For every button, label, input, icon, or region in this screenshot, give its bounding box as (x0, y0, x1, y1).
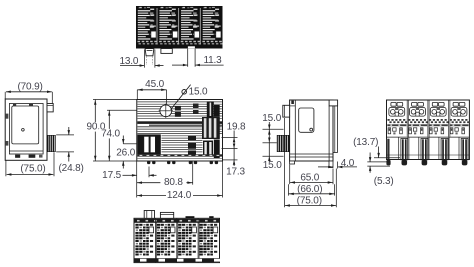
dimension 19.8 17.3 line and arrows (233, 131, 236, 167)
front view bottom feet (147, 161, 218, 164)
left view top right tab (47, 104, 53, 112)
bottom view tab center (160, 212, 173, 218)
front view louvers lower (162, 136, 203, 152)
svg-text:80.8: 80.8 (164, 177, 183, 188)
bottom view dark mark 1 (186, 216, 195, 218)
dimension 19.8 extension lines (222, 137, 238, 160)
dimension 90.0 extension lines (93, 100, 137, 162)
dimension 26.0 extension line (123, 143, 137, 145)
rear view left half plunger (386, 139, 390, 166)
bottom view dark mark 2 (209, 216, 213, 218)
dimension 15.0 lines and arrows (268, 122, 271, 162)
front view right connector bars (202, 101, 220, 158)
svg-text:4.0: 4.0 (341, 158, 355, 169)
dimension 13.0 line and arrows (120, 64, 164, 67)
dimension (70.9) extension lines (5, 92, 52, 104)
front view mid dark details (175, 104, 199, 157)
svg-text:(66.0): (66.0) (297, 184, 322, 195)
side view top left tick (291, 101, 294, 104)
svg-text:(75.0): (75.0) (297, 196, 322, 207)
dimension 17.5 extension lines (137, 161, 149, 198)
front view left terminal block (137, 134, 161, 154)
dimension (5.3) lines and arrows (367, 153, 390, 173)
dimension 13.0 extension lines (144, 50, 155, 68)
label 90.0 (84, 122, 108, 132)
rear view module 4 (449, 100, 470, 160)
front view louvers upper (137, 102, 222, 118)
svg-text:11.3: 11.3 (203, 55, 222, 66)
bottom view body (134, 218, 220, 262)
left view small circle (22, 129, 25, 132)
bottom view module 4 (198, 218, 218, 262)
side view bottom feet (290, 161, 333, 168)
left view left edge detail (5, 114, 8, 146)
dimension 17.5 line and arrows (123, 174, 157, 177)
bottom view module 3 (177, 218, 197, 262)
rear view plungers (399, 137, 470, 165)
svg-text:65.0: 65.0 (300, 173, 319, 184)
dimension (24.8) extension lines (56, 135, 74, 152)
dimension 11.3 extension lines (188, 49, 195, 67)
svg-text:26.0: 26.0 (116, 148, 135, 159)
svg-text:(13.7): (13.7) (353, 137, 378, 148)
left view bottom feet (15, 155, 42, 158)
side view label plate (299, 108, 314, 132)
top view mounting tab left (145, 49, 154, 56)
dimension 124.0 extension line (222, 161, 224, 198)
dimension (13.7) line and arrow (374, 147, 400, 158)
side view bottom extension lines (285, 118, 337, 207)
svg-text:(70.9): (70.9) (17, 82, 42, 93)
dimension 15.0 extension lines (263, 129, 284, 156)
svg-text:17.3: 17.3 (226, 166, 245, 177)
dimension 80.8 line and arrows (137, 177, 193, 186)
dimension 11.3 line and arrows (172, 64, 224, 67)
dimension 90.0 line and arrows (94, 100, 97, 162)
side view left connector block (277, 135, 290, 152)
dimension 74.0 line and arrows (108, 110, 111, 161)
rear view module 3 (428, 100, 449, 160)
svg-text:15.0: 15.0 (263, 160, 282, 171)
bottom view module 2 (155, 218, 175, 262)
dimension 65.0 line and arrows (290, 181, 333, 184)
dimension (70.9) line and arrows (6, 91, 52, 94)
dimension 80.8 extension line (192, 161, 194, 185)
side view right rail channel (329, 100, 338, 161)
svg-text:(24.8): (24.8) (59, 163, 84, 174)
dimension 26.0 line and arrows (122, 136, 125, 169)
svg-text:15.0: 15.0 (262, 113, 281, 124)
left view label plate (12, 106, 39, 144)
dimension 4.0 line and arrows (318, 162, 357, 169)
phi15.0 leader line and phi symbol (171, 85, 191, 110)
top view body (136, 6, 223, 49)
side view top left tab (283, 105, 290, 117)
bottom view bottom rim (135, 258, 221, 262)
front view bottom strip (137, 154, 222, 158)
svg-text:45.0: 45.0 (145, 79, 164, 90)
svg-text:74.0: 74.0 (101, 128, 120, 139)
left view connector block (47, 135, 55, 152)
rear view module 1 (387, 102, 407, 137)
top view notch for 11.3 (188, 46, 195, 48)
front view body (137, 100, 223, 162)
rear view module 2 (407, 100, 428, 160)
rear view bottom edge (387, 155, 470, 160)
left view inner face (9, 104, 43, 155)
dimension 45.0 extension lines (137, 90, 166, 104)
left view inner top ticks (13, 104, 33, 106)
dimension 45.0 line and arrows (137, 89, 166, 92)
dimension (75.0) side line and arrows (285, 204, 337, 207)
dimension (66.0) line and arrows (289, 193, 335, 196)
side view body (290, 100, 333, 161)
dimension 124.0 line and arrows (137, 190, 223, 198)
svg-text:124.0: 124.0 (167, 190, 192, 201)
dimension (75.0) line and arrows (7, 173, 54, 176)
left view outer body (5, 99, 47, 160)
top view mounting tab center (161, 49, 172, 54)
front view mid dark band (137, 121, 222, 127)
front view louvers middle (137, 129, 222, 133)
dimension 13.0 tab edge dashed lines (146, 56, 152, 65)
bottom view tab left (144, 211, 154, 219)
svg-text:17.5: 17.5 (102, 170, 121, 181)
dimension 74.0 extension line (107, 109, 137, 111)
svg-text:(75.0): (75.0) (20, 164, 45, 175)
front view phi15 boss circle (159, 104, 173, 118)
dimension (75.0) extension lines (6, 152, 54, 176)
label 74.0 (98, 129, 122, 139)
bottom view module 1 (135, 224, 153, 256)
svg-text:(5.3): (5.3) (374, 176, 394, 187)
svg-text:15.0: 15.0 (189, 86, 208, 97)
svg-text:19.8: 19.8 (227, 122, 246, 133)
rear view body (387, 100, 470, 160)
dimension (24.8) line and arrows (68, 127, 71, 162)
svg-text:13.0: 13.0 (119, 56, 138, 67)
